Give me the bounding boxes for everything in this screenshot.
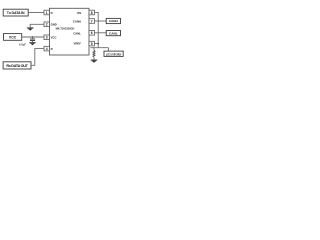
wire VCC to pin3 [22,36,44,38]
svg-text:D: D [51,11,53,15]
wire Rx to pin4 [31,49,44,66]
svg-text:MK.TJA1050CH: MK.TJA1050CH [56,27,75,31]
wire pin6 to CANL [95,32,107,34]
svg-text:RS: RS [77,11,81,15]
CANH block [106,18,120,23]
wire pin8 RS net [95,12,99,47]
wire pin2 to ground [30,24,44,28]
wire pin7 to CANH [95,20,107,22]
wire pin5 to RS net [95,43,99,45]
svg-text:CANL: CANL [73,31,81,35]
svg-text:5: 5 [91,42,93,46]
svg-text:CANL: CANL [109,31,118,35]
svg-text:CANH: CANH [109,19,119,23]
pin 3 box [44,35,50,40]
svg-text:R: R [51,47,53,51]
IC U1 body (CAN transceiver) [50,8,90,55]
node junction RS net [97,43,99,45]
uController block [104,51,123,56]
pin 5 box [89,41,95,46]
svg-text:3: 3 [46,36,48,40]
svg-text:VREF: VREF [74,42,82,46]
ground (resistor) [91,59,98,61]
pin 2 box [44,22,50,27]
capacitor C1 [32,37,34,39]
svg-text:Tx DATA IN: Tx DATA IN [7,11,25,15]
node junction at capacitor [32,36,34,38]
svg-text:CANH: CANH [73,19,81,23]
svg-text:4.7μF: 4.7μF [19,42,26,46]
wire Tx to pin1 [28,12,44,14]
pin 7 box [89,19,95,24]
svg-text:µController: µController [106,52,122,56]
resistor R1 [93,48,95,51]
pin 1 box [44,10,50,15]
pin 4 box [44,46,50,51]
svg-text:7: 7 [91,19,93,23]
ground (pin 2) [27,27,34,29]
svg-text:8: 8 [91,11,93,15]
pin 8 box [89,10,95,15]
VCC block [4,34,22,41]
svg-text:2: 2 [46,23,48,27]
svg-text:GND: GND [51,23,57,27]
wire RS net horizontal [91,47,109,49]
svg-text:VCC: VCC [51,36,57,40]
CANL block [106,31,120,36]
Tx DATA IN block [3,9,28,16]
svg-text:VCC: VCC [9,35,17,39]
wire stub to uController [107,48,109,51]
Rx DATA OUT block [3,62,31,69]
svg-text:Rx DATA OUT: Rx DATA OUT [6,64,28,68]
svg-text:4: 4 [46,47,48,51]
pin 6 box [89,31,95,36]
ground (capacitor) [29,42,35,44]
svg-text:6: 6 [91,31,93,35]
svg-text:1: 1 [46,11,48,15]
